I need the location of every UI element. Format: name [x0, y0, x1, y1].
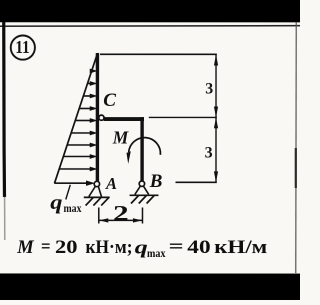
svg-text:=: =: [41, 237, 51, 257]
top black scan bar: [0, 0, 300, 22]
load arrow 3: [83, 94, 95, 97]
support B ground line: [130, 194, 159, 196]
svg-text:3: 3: [205, 81, 213, 98]
right dim arrow down (above middle): [214, 107, 218, 118]
svg-text:кН/м: кН/м: [214, 238, 267, 258]
svg-text:20: 20: [55, 238, 78, 258]
right dim: middle extension line: [149, 116, 217, 118]
support A triangle: [89, 186, 102, 197]
svg-text:40: 40: [187, 238, 210, 258]
load arrow 10 (bottom): [54, 181, 93, 185]
dimension 2: label: [113, 201, 129, 225]
load arrow 2: [88, 82, 96, 85]
load arrow 4: [79, 107, 96, 110]
svg-text:M: M: [16, 238, 34, 258]
triangular load hypotenuse: [54, 53, 97, 183]
support B triangle: [135, 186, 149, 195]
right dim: vertical line: [215, 54, 217, 182]
load arrow 5: [75, 119, 96, 122]
svg-text:max: max: [147, 246, 166, 260]
svg-text:B: B: [149, 171, 163, 192]
svg-text:C: C: [103, 90, 116, 111]
svg-text:q: q: [50, 192, 62, 214]
dimension 2: right arrowhead: [133, 218, 142, 222]
dimension 2: left arrowhead: [99, 218, 108, 222]
L-member C-corner-B: [104, 117, 144, 121]
dimension 2: right tick: [141, 207, 143, 223]
support A: pin circle: [94, 181, 99, 186]
bottom black scan bar: [0, 273, 300, 300]
right dim arrow up (below middle): [214, 118, 218, 129]
column AC (vertical member): [96, 53, 99, 181]
svg-text:кН·м;: кН·м;: [85, 238, 132, 258]
left page border: [2, 22, 6, 197]
problem number circle 11: [11, 35, 35, 59]
svg-text:3: 3: [205, 145, 213, 162]
right dim arrow up (top): [214, 55, 218, 66]
load arrow 7: [67, 143, 96, 146]
right dim: bottom extension line: [175, 181, 216, 183]
svg-text:=: =: [169, 238, 184, 258]
support B: pin circle: [139, 181, 144, 186]
load arrow 8: [63, 155, 95, 158]
moment arrowhead: [126, 151, 130, 164]
svg-text:2: 2: [113, 201, 129, 225]
moment arc M: [129, 138, 161, 155]
support A hatching: [86, 198, 109, 206]
page border top rule: [0, 25, 300, 28]
svg-text:11: 11: [15, 37, 30, 57]
svg-text:A: A: [105, 174, 117, 193]
load arrow 6: [71, 131, 96, 134]
svg-text:max: max: [63, 203, 81, 215]
dimension 2: line: [99, 219, 142, 221]
right page border: [295, 22, 297, 273]
svg-text:M: M: [112, 127, 130, 147]
hinge circle at C: [99, 115, 104, 120]
load arrow 1: [90, 69, 96, 72]
support B hatching: [131, 195, 154, 203]
support A ground line: [84, 196, 110, 198]
load arrow 9: [59, 167, 96, 170]
right dim arrow down (bottom): [214, 171, 218, 182]
right dim: top extension line: [100, 53, 217, 55]
q_max leader line: [66, 185, 71, 200]
dimension 2: left tick: [98, 207, 100, 223]
